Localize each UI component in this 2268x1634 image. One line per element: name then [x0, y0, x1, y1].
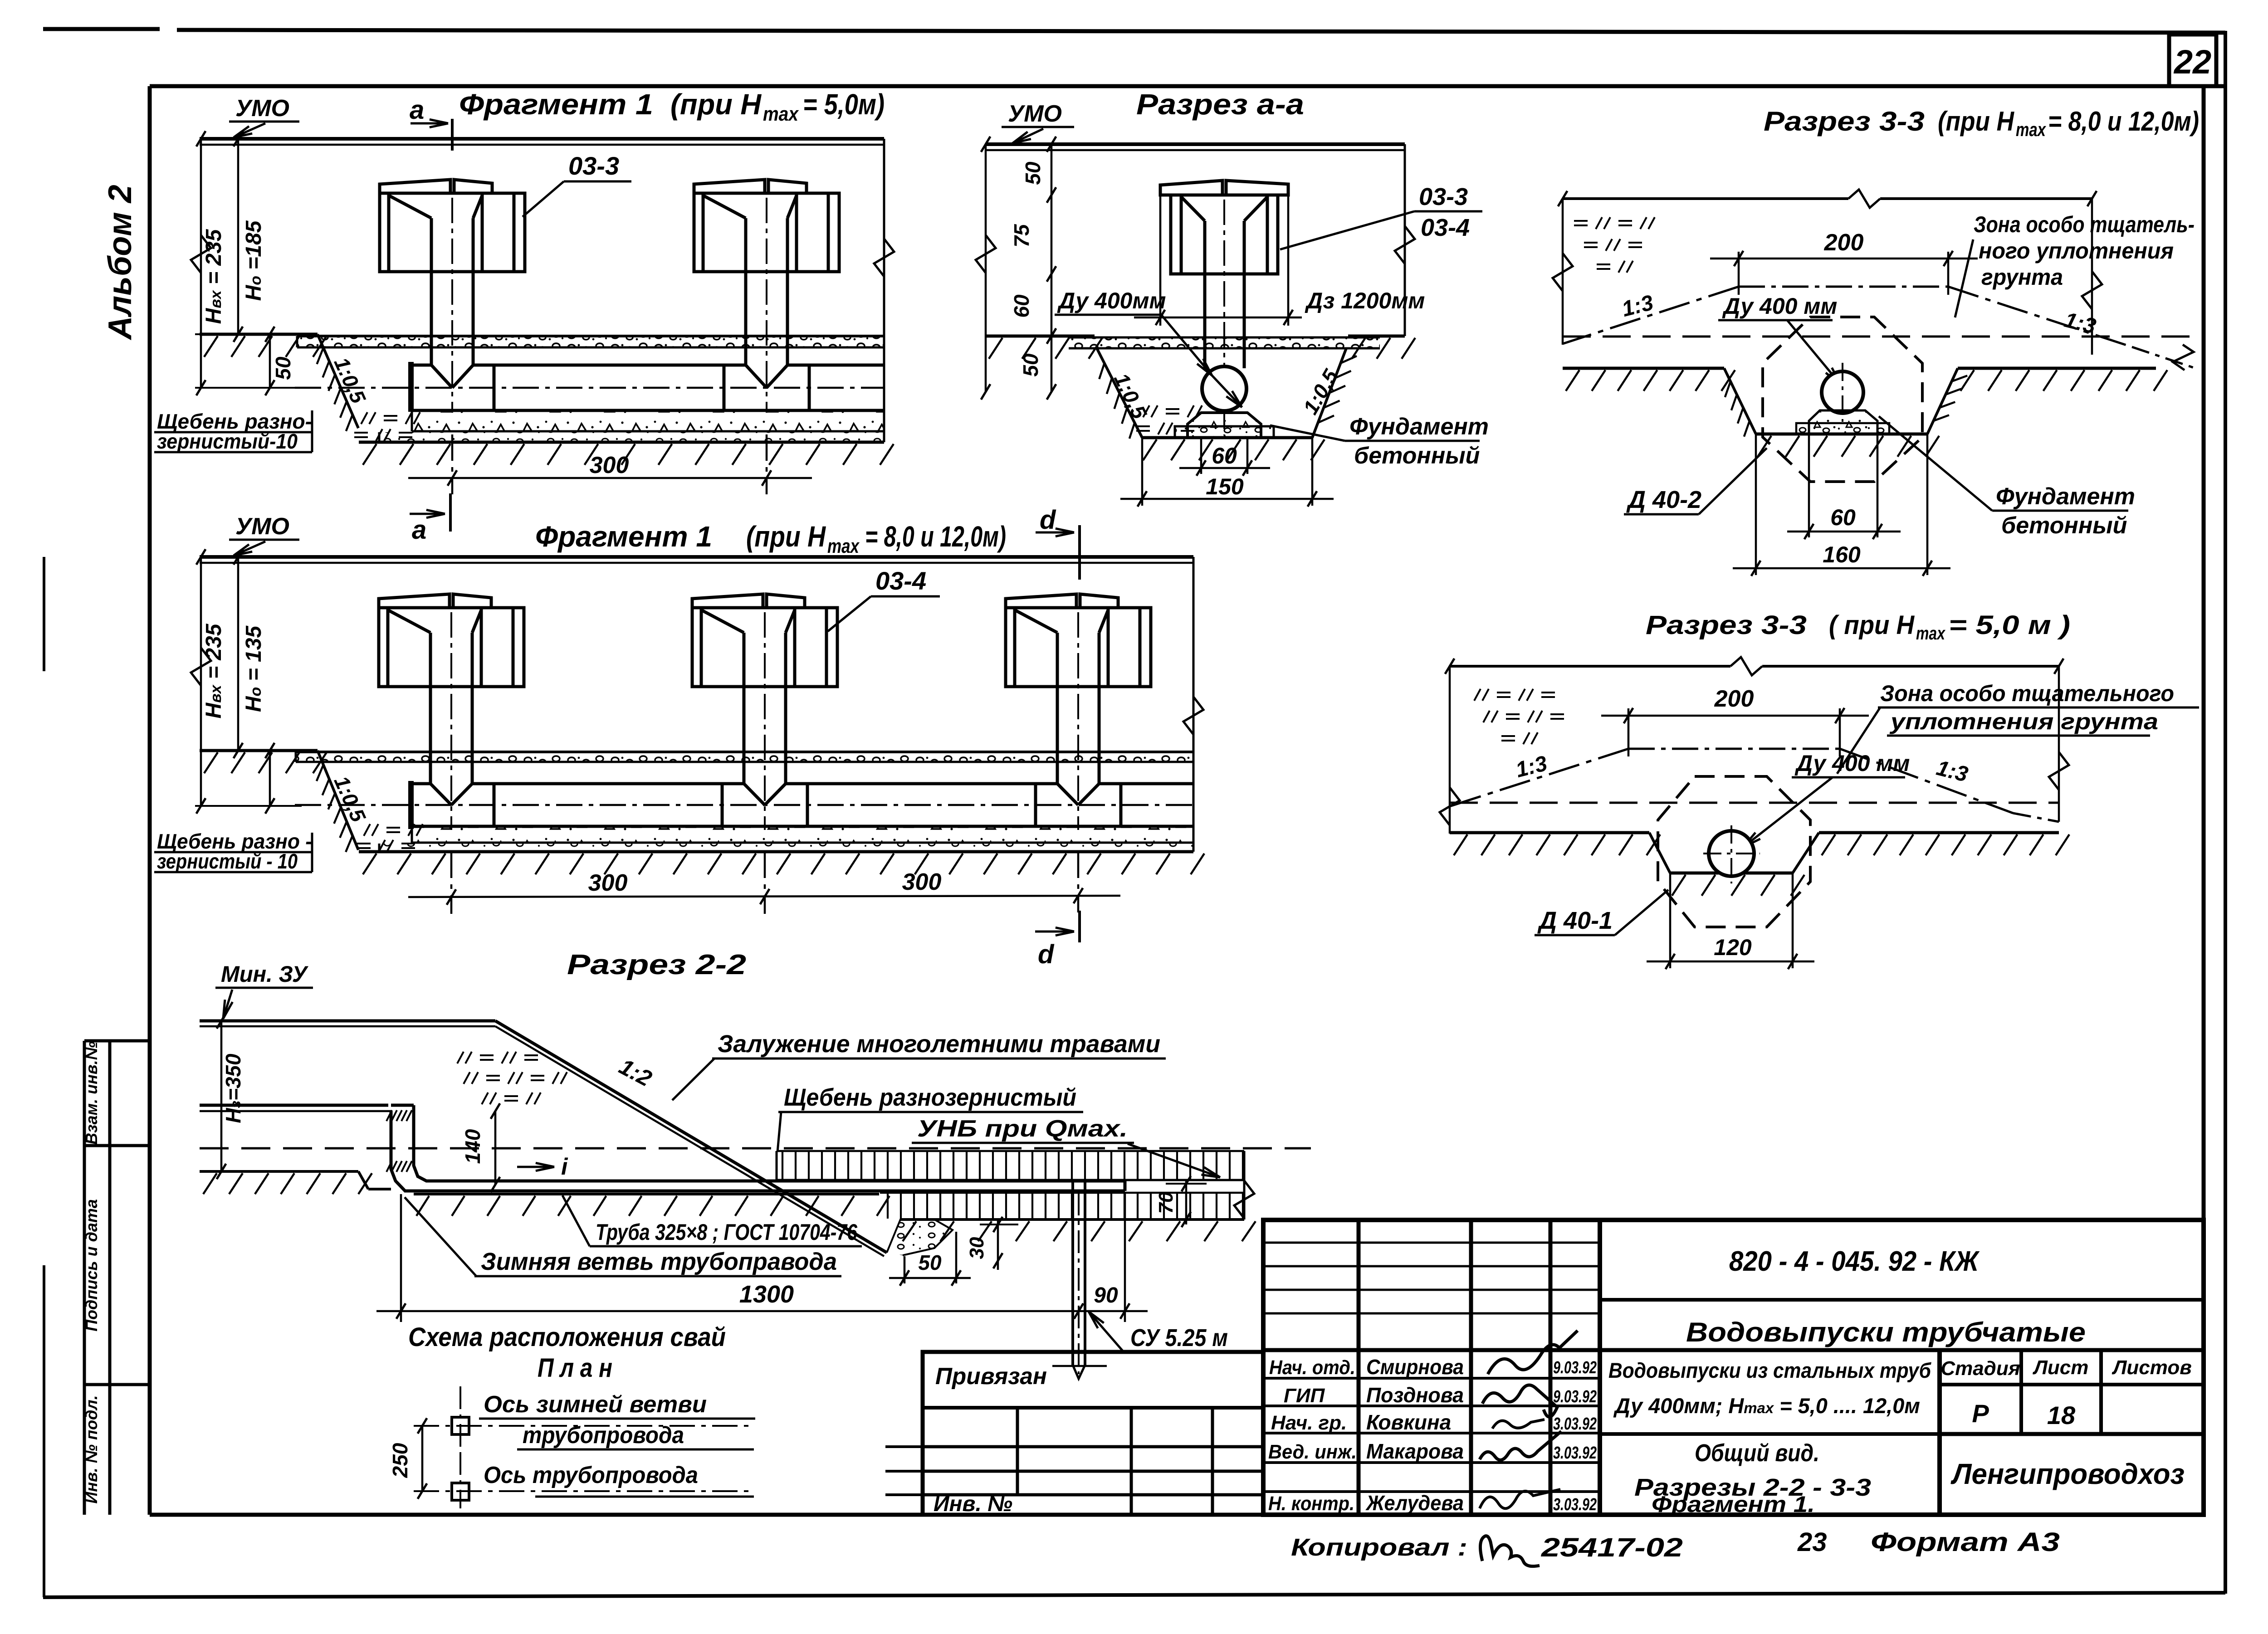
- svg-text:Ду 400мм: Ду 400мм: [1057, 288, 1166, 313]
- svg-text:Фрагмент 1.: Фрагмент 1.: [1652, 1492, 1815, 1517]
- svg-text:Фрагмент 1: Фрагмент 1: [535, 520, 712, 553]
- svg-text:= 5,0 м ): = 5,0 м ): [1949, 610, 2070, 640]
- r22 elbow hatch: [386, 1110, 392, 1121]
- svg-text:a: a: [412, 515, 426, 545]
- svg-text:Р: Р: [1972, 1399, 1989, 1428]
- svg-text:Разрез а-а: Разрез а-а: [1136, 88, 1304, 121]
- r22 standpipe СУ: [1071, 1181, 1074, 1365]
- sheet left edge segments: [43, 557, 45, 671]
- view1 pipe top line: [411, 364, 431, 367]
- aa level dim line: [1051, 144, 1053, 392]
- sheet top edge line: [43, 27, 160, 31]
- view2 section mark d bottom: [1078, 911, 1081, 942]
- r22 dim 30: [997, 1219, 999, 1270]
- view2 under-pipe gravel band: [412, 827, 1193, 843]
- view1 pipe axis: [295, 387, 884, 389]
- sheet right edge: [2224, 31, 2227, 1594]
- view2 pipe joints: [493, 784, 496, 826]
- svg-text:бетонный: бетонный: [1354, 443, 1480, 469]
- r33b pipe circle: [1709, 831, 1754, 876]
- svg-text:Инв. № подл.: Инв. № подл.: [82, 1395, 101, 1503]
- svg-text:Зимняя ветвь трубоправода: Зимняя ветвь трубоправода: [481, 1248, 837, 1275]
- svg-text:бетонный: бетонный: [2001, 512, 2127, 539]
- svg-text:Ось трубопровода: Ось трубопровода: [484, 1462, 698, 1488]
- r33b groundwater dashed line: [1450, 802, 2059, 804]
- svg-text:уплотнения грунта: уплотнения грунта: [1889, 709, 2158, 734]
- sheet number box 22: [2169, 34, 2216, 86]
- title block main frame: [1263, 1220, 2204, 1515]
- svg-text:Нач. гр.: Нач. гр.: [1271, 1412, 1347, 1434]
- svg-text:Д 40-2: Д 40-2: [1626, 486, 1701, 513]
- r22 slope toe gravel pocket: [887, 1219, 953, 1255]
- svg-text:Ленгипроводхоз: Ленгипроводхоз: [1950, 1458, 2185, 1490]
- aa dim 60: [1200, 438, 1202, 474]
- title block right header row line: [1940, 1383, 2204, 1386]
- svg-text:75: 75: [1010, 224, 1033, 248]
- svg-text:Фундамент: Фундамент: [1349, 414, 1489, 440]
- svg-text:120: 120: [1714, 935, 1752, 960]
- r33a ground lines: [1563, 367, 1724, 370]
- view1 under-pipe gravel band: [412, 411, 884, 431]
- svg-text:Разрез 3-3: Разрез 3-3: [1764, 106, 1925, 137]
- svg-text:a: a: [410, 95, 424, 125]
- aa dim 150: [1141, 438, 1144, 506]
- view2 dim Ho=135: [237, 557, 240, 751]
- svg-text:9.03.92: 9.03.92: [1553, 1387, 1597, 1406]
- svg-text:22: 22: [2173, 43, 2211, 81]
- svg-text:ГИП: ГИП: [1284, 1385, 1325, 1407]
- svg-text:50: 50: [918, 1251, 942, 1274]
- svg-text:Но = 135: Но = 135: [242, 625, 266, 712]
- r22 flow mark i: [517, 1166, 554, 1168]
- aa grunt symbol: [1143, 405, 1149, 417]
- r33a pit: [1724, 368, 1756, 434]
- r33a dashed octagon Д40-2: [1763, 317, 1922, 482]
- svg-text:60: 60: [1830, 505, 1856, 530]
- svg-text:Ду 400 мм: Ду 400 мм: [1794, 751, 1910, 776]
- aa cap body section: [1171, 195, 1278, 274]
- svg-text:max: max: [827, 535, 860, 557]
- r33b dim 120: [1669, 873, 1672, 968]
- svg-text:Копировал :: Копировал :: [1291, 1534, 1467, 1561]
- title block name rows: [1263, 1377, 1600, 1380]
- svg-text:Нач. отд.: Нач. отд.: [1269, 1356, 1355, 1379]
- svg-text:Ду 400 мм: Ду 400 мм: [1722, 293, 1837, 319]
- svg-text:П л а н: П л а н: [538, 1353, 612, 1383]
- drawing frame: [150, 84, 2225, 88]
- r22 pit bottom line: [414, 1193, 879, 1195]
- view2 grunt symbol: [364, 824, 370, 836]
- r22 dim 1300: [400, 1194, 402, 1322]
- svg-text:max: max: [763, 103, 799, 125]
- svg-text:23: 23: [1797, 1527, 1827, 1557]
- r22 intake elbow: [391, 1111, 1125, 1191]
- svg-text:Привязан: Привязан: [935, 1363, 1047, 1390]
- view1 grunt symbol: [361, 412, 367, 424]
- r22 break right: [1243, 1151, 1246, 1219]
- svg-text:СУ 5.25 м: СУ 5.25 м: [1130, 1324, 1228, 1351]
- r22 vertical-hatch gravel zone lower: [880, 1193, 1244, 1219]
- svg-text:18: 18: [2047, 1401, 2076, 1429]
- r33a grunt symbols: [1574, 220, 1588, 222]
- svg-text:150: 150: [1206, 474, 1244, 499]
- aa riser shaft: [1203, 221, 1207, 368]
- signature scribbles: [1488, 1331, 1578, 1374]
- r33a crest centerline: [1739, 286, 1948, 288]
- r33b left slope: [1450, 749, 1628, 806]
- r33a right slope: [1948, 287, 2132, 347]
- aa pit bottom: [1142, 436, 1312, 439]
- svg-text:= 8,0 и 12,0м): = 8,0 и 12,0м): [865, 520, 1006, 553]
- svg-text:max: max: [1916, 624, 1945, 644]
- sheet bottom edge: [43, 1593, 2225, 1597]
- r33a left slope: [1563, 287, 1739, 344]
- svg-text:3.03.92: 3.03.92: [1553, 1444, 1597, 1463]
- title block top thin rows: [1263, 1242, 1600, 1244]
- view2 ground line left: [200, 749, 318, 752]
- r22 dim 70: [1185, 1181, 1188, 1224]
- r33a top line with break: [1563, 197, 1848, 200]
- svg-text:Альбом 2: Альбом 2: [102, 185, 138, 340]
- svg-text:Листов: Листов: [2112, 1356, 2192, 1379]
- r33b right extension line: [2058, 666, 2060, 822]
- svg-text:грунта: грунта: [1981, 264, 2063, 290]
- svg-text:Стадия: Стадия: [1941, 1357, 2020, 1380]
- r33a right extension line: [2091, 199, 2093, 355]
- svg-text:Нз=350: Нз=350: [221, 1054, 245, 1123]
- svg-text:200: 200: [1714, 686, 1754, 712]
- svg-text:Формат А3: Формат А3: [1871, 1527, 2060, 1557]
- svg-text:Разрез 3-3: Разрез 3-3: [1646, 610, 1807, 640]
- svg-text:Макарова: Макарова: [1366, 1439, 1464, 1463]
- aa foundation block: [1188, 413, 1261, 437]
- view2 pipe top line: [411, 782, 430, 785]
- left attachment table Привязан: [923, 1352, 1263, 1515]
- view2 dim 300 left span: [450, 852, 453, 914]
- r22 upper berm double line: [200, 1019, 495, 1023]
- svg-text:Водовыпуски трубчатые: Водовыпуски трубчатые: [1686, 1317, 2086, 1347]
- r33b dim 200: [1628, 708, 1630, 756]
- aa pile cap section: [1160, 180, 1222, 195]
- r22 ground line left: [200, 1170, 358, 1173]
- svg-text:70: 70: [1155, 1191, 1177, 1214]
- svg-text:i: i: [561, 1154, 568, 1180]
- svg-text:УМО: УМО: [1008, 101, 1062, 127]
- svg-text:Ось зимней ветви: Ось зимней ветви: [484, 1391, 707, 1418]
- svg-text:140: 140: [461, 1129, 484, 1164]
- svg-text:Н. контр.: Н. контр.: [1268, 1493, 1354, 1515]
- svg-text:УМО: УМО: [235, 95, 289, 122]
- view2 dim tick lines at axis: [269, 751, 271, 806]
- view1 water surface lines: [200, 137, 884, 141]
- plan dim 250: [421, 1426, 424, 1491]
- r33b pit: [1649, 833, 1670, 873]
- aa pit slopes: [1097, 348, 1142, 438]
- svg-text:d: d: [1040, 505, 1056, 535]
- aa outer dim line: [985, 144, 987, 392]
- svg-text:Фундамент: Фундамент: [1996, 483, 2135, 510]
- view1 dim Hвх=235: [200, 139, 202, 388]
- handwritten Ков: [1480, 1536, 1540, 1566]
- r22 dim 140: [494, 1111, 497, 1185]
- view1 break line right: [883, 139, 885, 442]
- svg-text:Дз 1200мм: Дз 1200мм: [1305, 288, 1425, 313]
- svg-text:Зона особо тщатель-: Зона особо тщатель-: [1974, 212, 2195, 237]
- svg-text:820 - 4 - 045. 92 - КЖ: 820 - 4 - 045. 92 - КЖ: [1729, 1246, 1980, 1277]
- view1 dim 50: [269, 334, 271, 388]
- svg-text:25417-02: 25417-02: [1541, 1533, 1683, 1562]
- svg-text:Фрагмент 1: Фрагмент 1: [459, 88, 653, 121]
- svg-text:Ковкина: Ковкина: [1366, 1410, 1451, 1434]
- pile cap front at x=995: [379, 594, 450, 608]
- svg-text:Нвх = 235: Нвх = 235: [202, 229, 226, 324]
- svg-text:Мин. ЗУ: Мин. ЗУ: [221, 961, 309, 987]
- svg-text:Желудева: Желудева: [1365, 1491, 1464, 1515]
- left margin attribute table: [83, 1041, 86, 1515]
- svg-text:Взам. инв.№: Взам. инв.№: [82, 1041, 101, 1145]
- svg-text:Вед. инж.: Вед. инж.: [1268, 1441, 1357, 1463]
- view1 dim Ho=185: [237, 139, 240, 334]
- svg-text:50: 50: [271, 356, 295, 380]
- svg-text:Подпись и дата: Подпись и дата: [82, 1199, 101, 1332]
- svg-text:Смирнова: Смирнова: [1366, 1355, 1464, 1379]
- view1 section mark a bottom: [449, 493, 452, 532]
- r22 dim H3=350: [220, 1021, 223, 1171]
- svg-text:ного уплотнения: ного уплотнения: [1979, 238, 2174, 263]
- svg-text:03-3: 03-3: [568, 151, 619, 180]
- r33b dashed octagon Д40-1: [1658, 776, 1810, 927]
- svg-text:9.03.92: 9.03.92: [1553, 1358, 1597, 1377]
- svg-text:30: 30: [966, 1237, 988, 1259]
- aa break line right: [1404, 144, 1406, 336]
- r33a dim 60: [1808, 434, 1810, 537]
- title block verticals: [1357, 1220, 1361, 1515]
- r22 vertical-hatch gravel zone upper: [777, 1151, 1244, 1180]
- svg-text:Водовыпуски из стальных труб: Водовыпуски из стальных труб: [1608, 1358, 1932, 1382]
- r33b ground lines: [1450, 831, 1649, 834]
- view1 pipe bottom line: [411, 409, 884, 412]
- svg-text:160: 160: [1823, 542, 1861, 567]
- r22 dim 90: [1124, 1194, 1126, 1322]
- r33b top line with break: [1450, 665, 1730, 668]
- view1 ground line left: [200, 333, 318, 336]
- svg-text:Лист: Лист: [2033, 1356, 2089, 1379]
- svg-text:Щебень разнозернистый: Щебень разнозернистый: [784, 1084, 1076, 1111]
- r33a groundwater dashed line: [1563, 336, 2195, 338]
- aa foundation slab: [1175, 426, 1274, 438]
- r33b grunt symbols: [1474, 689, 1481, 701]
- pile cap front at x=2377: [1006, 594, 1076, 608]
- view1 excavation slope 1:0.5: [318, 334, 358, 428]
- r33a left extension line: [1562, 199, 1564, 345]
- view2 gravel band top: [296, 752, 1193, 762]
- view1 pipe joints: [493, 365, 496, 410]
- svg-text:Зона особо тщательного: Зона особо тщательного: [1880, 681, 2174, 706]
- svg-text:300: 300: [902, 869, 942, 895]
- svg-text:300: 300: [588, 870, 628, 896]
- r33b right slope: [1840, 749, 2013, 813]
- r22 slope 1:2 double line: [495, 1021, 887, 1253]
- svg-text:Труба 325×8 ; ГОСТ 10704-76: Труба 325×8 ; ГОСТ 10704-76: [596, 1219, 858, 1245]
- svg-text:Позднова: Позднова: [1366, 1383, 1464, 1407]
- svg-text:60: 60: [1010, 294, 1033, 318]
- r33a dim 200: [1738, 252, 1740, 295]
- aa pipe circle: [1202, 366, 1246, 411]
- svg-text:90: 90: [1094, 1283, 1118, 1307]
- pile cap front view at x=997: [380, 180, 450, 193]
- view2 break line right: [1193, 557, 1195, 852]
- view2 excavation slope: [318, 751, 358, 850]
- r22 water dashed line: [200, 1147, 1311, 1150]
- svg-text:Разрез 2-2: Разрез 2-2: [567, 949, 746, 980]
- view2 pipe left end bar: [408, 781, 414, 829]
- svg-text:200: 200: [1824, 229, 1864, 256]
- r33a dim 160: [1755, 434, 1757, 575]
- svg-text:max: max: [2016, 119, 2046, 140]
- svg-text:3.03.92: 3.03.92: [1553, 1415, 1597, 1434]
- svg-text:03-4: 03-4: [875, 566, 926, 595]
- r22 lower ground line right: [900, 1218, 1244, 1221]
- svg-text:Д 40-1: Д 40-1: [1537, 907, 1613, 934]
- view2 sand band: [379, 844, 1193, 852]
- svg-text:d: d: [1038, 940, 1055, 969]
- r33b crest centerline: [1628, 748, 1840, 750]
- svg-text:УМО: УМО: [235, 513, 289, 540]
- r22 dim 50: [904, 1256, 906, 1283]
- view1 dim 300: [451, 434, 454, 494]
- title block row Наименование: [1600, 1298, 2204, 1302]
- svg-text:= 5,0м): = 5,0м): [803, 88, 885, 121]
- svg-text:50: 50: [1021, 161, 1045, 185]
- svg-text:60: 60: [1212, 443, 1237, 468]
- stub lines left of table: [885, 1445, 923, 1448]
- svg-text:(при Н: (при Н: [746, 520, 826, 553]
- svg-text:(при Н: (при Н: [670, 88, 762, 121]
- r22 grunt symbols: [457, 1052, 464, 1063]
- r22 pipe end closure: [1124, 1181, 1127, 1191]
- svg-text:1300: 1300: [739, 1281, 794, 1308]
- svg-text:Общий вид.: Общий вид.: [1695, 1439, 1819, 1467]
- svg-text:250: 250: [388, 1443, 412, 1478]
- svg-text:УНБ при Qмах.: УНБ при Qмах.: [917, 1116, 1128, 1142]
- r33a pipe circle: [1822, 371, 1863, 413]
- aa gravel band: [1069, 337, 1380, 348]
- view2 water surface lines: [200, 555, 1193, 559]
- view2 pipe axis: [295, 804, 1193, 806]
- svg-text:трубопровода: трубопровода: [523, 1422, 684, 1449]
- aa water surface lines: [986, 142, 1405, 146]
- view1 sand band: [379, 432, 884, 442]
- pile cap front view at x=1690: [694, 180, 765, 193]
- plan pile square lower: [452, 1483, 469, 1500]
- r33b left extension line: [1449, 666, 1451, 834]
- view1 pipe left end bar: [408, 362, 414, 412]
- svg-text:3.03.92: 3.03.92: [1553, 1495, 1597, 1514]
- view2 pipe bottom line: [411, 825, 1193, 828]
- r22 middle terrace double line: [200, 1104, 388, 1107]
- pile cap front at x=1686: [692, 594, 763, 608]
- r33a foundation block: [1809, 410, 1877, 433]
- svg-text:Инв. №: Инв. №: [934, 1492, 1012, 1516]
- plan pile square upper: [452, 1417, 469, 1434]
- view2 dim Hвх=235: [200, 557, 202, 806]
- svg-text:03-3: 03-3: [1419, 183, 1468, 210]
- view1 gravel band top: [297, 336, 884, 347]
- svg-text:03-4: 03-4: [1421, 214, 1470, 241]
- view2 pit bottom line: [359, 850, 1193, 854]
- aa ground lines: [986, 335, 1095, 338]
- svg-text:300: 300: [590, 452, 629, 478]
- svg-text:Нвх = 235: Нвх = 235: [202, 623, 226, 718]
- view1 pit bottom line: [359, 441, 884, 444]
- svg-text:( при Н: ( при Н: [1829, 610, 1915, 640]
- svg-text:Схема расположения свай: Схема расположения свай: [408, 1322, 726, 1352]
- svg-text:= 8,0 и 12,0м): = 8,0 и 12,0м): [2048, 106, 2199, 137]
- svg-text:Залужение многолетними трава: Залужение многолетними травами: [718, 1030, 1160, 1058]
- svg-text:(при Н: (при Н: [1938, 106, 2014, 137]
- svg-text:Но =185: Но =185: [242, 220, 266, 301]
